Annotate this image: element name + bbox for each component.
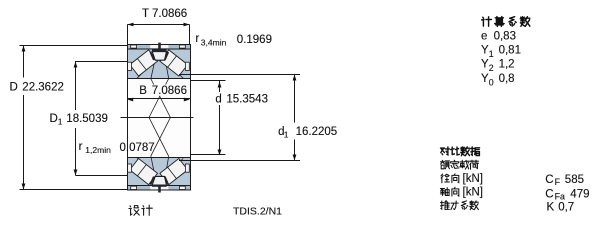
svg-text:1,2: 1,2 bbox=[499, 59, 515, 71]
svg-text:T 7.0866: T 7.0866 bbox=[142, 8, 187, 20]
svg-text:0: 0 bbox=[489, 78, 494, 88]
svg-text:1: 1 bbox=[489, 49, 494, 59]
svg-text:18.5039: 18.5039 bbox=[66, 113, 108, 125]
svg-text:D: D bbox=[50, 113, 58, 125]
svg-text:e: e bbox=[481, 31, 487, 43]
svg-text:1,2min: 1,2min bbox=[85, 145, 111, 155]
svg-text:C: C bbox=[545, 174, 553, 186]
svg-text:Y: Y bbox=[481, 73, 489, 85]
svg-text:Y: Y bbox=[481, 44, 489, 56]
svg-text:Y: Y bbox=[481, 59, 489, 71]
svg-text:0,81: 0,81 bbox=[499, 44, 521, 56]
svg-text:C: C bbox=[545, 188, 553, 200]
svg-text:1: 1 bbox=[284, 130, 289, 140]
svg-text:0,8: 0,8 bbox=[499, 73, 515, 85]
svg-text:2: 2 bbox=[489, 63, 494, 73]
svg-text:B: B bbox=[139, 85, 147, 97]
svg-text:3,4min: 3,4min bbox=[201, 38, 227, 48]
svg-text:16.2205: 16.2205 bbox=[296, 126, 338, 138]
svg-text:0.1969: 0.1969 bbox=[237, 34, 272, 46]
svg-text:F: F bbox=[555, 177, 561, 187]
svg-text:[kN]: [kN] bbox=[463, 173, 483, 185]
svg-text:1: 1 bbox=[58, 117, 63, 127]
svg-text:K: K bbox=[547, 202, 555, 214]
svg-text:0,83: 0,83 bbox=[494, 31, 516, 43]
svg-text:r: r bbox=[195, 33, 199, 45]
svg-text:D: D bbox=[10, 82, 18, 94]
svg-text:22.3622: 22.3622 bbox=[22, 82, 64, 94]
svg-text:0.0787: 0.0787 bbox=[120, 142, 155, 154]
svg-text:7.0866: 7.0866 bbox=[152, 85, 187, 97]
svg-text:585: 585 bbox=[565, 174, 584, 186]
svg-text:TDIS.2/N1: TDIS.2/N1 bbox=[233, 206, 282, 218]
svg-text:479: 479 bbox=[570, 188, 589, 200]
svg-text:Fa: Fa bbox=[555, 191, 565, 201]
svg-text:0,7: 0,7 bbox=[558, 202, 574, 214]
svg-text:15.3543: 15.3543 bbox=[226, 94, 268, 106]
svg-text:d: d bbox=[215, 94, 221, 106]
svg-text:[kN]: [kN] bbox=[463, 186, 483, 198]
svg-text:r: r bbox=[79, 141, 83, 153]
